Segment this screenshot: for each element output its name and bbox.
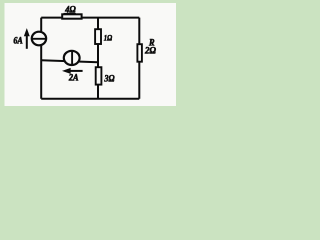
resistor 1ohm bbox=[95, 29, 101, 44]
arrow 6A (up) bbox=[24, 29, 29, 49]
svg-text:2Ω: 2Ω bbox=[144, 47, 156, 57]
svg-text:1Ω: 1Ω bbox=[104, 34, 113, 43]
wire: middle vertical branch bbox=[97, 18, 99, 99]
resistor 3ohm bbox=[96, 67, 102, 84]
svg-text:3Ω: 3Ω bbox=[104, 74, 115, 84]
resistor R 2ohm bbox=[137, 44, 142, 62]
label 4ohm underlined bbox=[64, 5, 76, 16]
arrow 2A (left) bbox=[63, 68, 83, 73]
page background frame bbox=[0, 0, 182, 111]
wire: right side branch bbox=[138, 18, 140, 99]
wire: middle horizontal branch bbox=[41, 60, 98, 62]
wire: bottom rail bbox=[41, 98, 139, 100]
wire: left side branch bbox=[40, 18, 42, 99]
wire: top rail bbox=[41, 17, 139, 19]
svg-text:6A: 6A bbox=[13, 36, 22, 46]
resistor 4ohm bbox=[62, 14, 81, 18]
svg-text:2A: 2A bbox=[68, 72, 79, 82]
current source 6A bbox=[32, 32, 47, 46]
current source 2A bbox=[64, 51, 80, 66]
